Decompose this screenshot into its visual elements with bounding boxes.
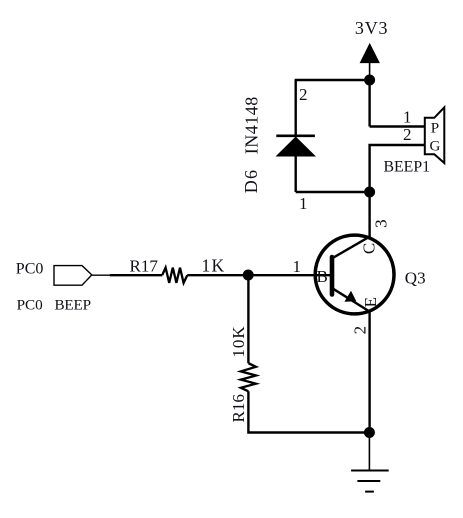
svg-text:1: 1 [299, 194, 308, 213]
wire: R16 bottom to ground rail [248, 391, 369, 432]
svg-text:Q3: Q3 [405, 269, 426, 288]
svg-text:R17: R17 [130, 257, 159, 276]
svg-text:BEEP: BEEP [55, 297, 91, 314]
svg-text:2: 2 [350, 326, 369, 335]
wire: emitter down to ground node [368, 311, 370, 433]
svg-text:1: 1 [293, 257, 302, 276]
transistor Q3 emitter line [333, 289, 370, 312]
transistor Q3 base bar [330, 257, 335, 295]
ground symbol line 2 [357, 480, 380, 482]
resistor R16 body (zigzag vertical) [241, 363, 256, 391]
port symbol PC0 (input flag) [54, 266, 92, 286]
wire: rail down to buzzer pin 1 [368, 80, 370, 127]
transistor Q3 emitter arrow [344, 291, 356, 302]
svg-text:C: C [359, 243, 378, 254]
svg-text:B: B [317, 267, 328, 286]
wire: collector node down to transistor [368, 192, 370, 238]
svg-text:3V3: 3V3 [355, 18, 388, 38]
node: junction dot at ground rail [364, 427, 375, 438]
svg-text:1: 1 [403, 108, 412, 127]
wire stub from port tip [92, 274, 110, 276]
svg-text:D6: D6 [241, 169, 261, 193]
svg-text:PC0: PC0 [17, 297, 44, 314]
svg-text:G: G [429, 138, 440, 154]
node: junction dot at 3V3 rail [364, 75, 375, 86]
wire: ground stem [368, 433, 370, 471]
diode D6 anode triangle [276, 137, 317, 157]
wire: rail to diode cathode (top horizontal) [295, 79, 370, 81]
node: junction dot at collector net [364, 187, 375, 198]
svg-text:R16: R16 [229, 394, 248, 422]
ground symbol line 1 [351, 470, 389, 472]
wire: R16 top (node down) [247, 275, 249, 363]
wire: power stem [369, 63, 371, 80]
svg-text:2: 2 [299, 85, 308, 104]
svg-text:PC0: PC0 [16, 261, 44, 278]
power 3V3 symbol (filled triangle) [360, 43, 380, 63]
transistor Q3 body circle [315, 235, 394, 314]
svg-text:BEEP1: BEEP1 [384, 159, 431, 176]
svg-text:IN4148: IN4148 [241, 96, 261, 154]
ground symbol line 3 [365, 491, 374, 493]
svg-text:1K: 1K [202, 256, 226, 276]
svg-text:E: E [361, 297, 380, 307]
transistor Q3 collector line [333, 237, 370, 258]
wire: diode bottom lead [295, 156, 297, 192]
svg-text:P: P [431, 120, 439, 136]
svg-text:10K: 10K [229, 325, 248, 357]
diode D6 cathode bar [276, 135, 315, 138]
svg-text:3: 3 [372, 219, 391, 228]
svg-text:2: 2 [403, 125, 412, 144]
buzzer BEEP1 pin 1 wire [370, 125, 425, 127]
wire: port to R17 [110, 274, 162, 276]
buzzer BEEP1 body (speaker symbol) [425, 107, 445, 163]
node: junction dot base/R16 [243, 270, 254, 281]
buzzer BEEP1 pin 2 wire [370, 145, 425, 192]
wire: R17 to transistor base [187, 274, 332, 276]
resistor R17 body (zigzag) [162, 268, 187, 283]
wire: diode bottom to collector node [296, 191, 370, 193]
wire: diode top lead [295, 80, 297, 136]
